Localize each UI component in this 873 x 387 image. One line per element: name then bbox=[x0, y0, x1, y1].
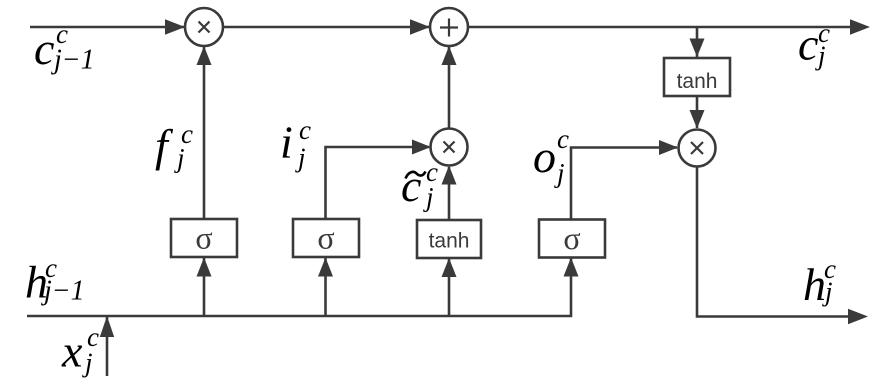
svg-text:c: c bbox=[299, 115, 311, 145]
arrowhead x-input up bbox=[100, 316, 114, 337]
label x_j^c input bbox=[61, 322, 99, 378]
svg-text:c: c bbox=[557, 124, 569, 154]
box sigma1 bbox=[171, 219, 237, 257]
wire from mid x-circle up to plus-circle bbox=[448, 47, 451, 128]
svg-text:j−1: j−1 bbox=[41, 276, 85, 307]
svg-text:c: c bbox=[34, 23, 54, 74]
svg-text:i: i bbox=[280, 117, 293, 168]
wire h-output from right x-circle down then right bbox=[697, 167, 851, 317]
arrowhead up into sigma1 bottom bbox=[197, 258, 212, 277]
svg-text:tanh: tanh bbox=[677, 70, 718, 93]
label c_j^c top right bbox=[798, 18, 830, 71]
svg-text:o: o bbox=[533, 131, 556, 182]
label h_j^c bottom right bbox=[803, 254, 836, 310]
symbol plus in circle bbox=[440, 19, 458, 37]
svg-text:c: c bbox=[401, 160, 421, 211]
label h_{j-1}^c bottom left bbox=[25, 253, 85, 308]
label i_j^c bbox=[280, 115, 311, 173]
wire from tanh-top box down to right x-circle bbox=[696, 96, 699, 128]
op x-circle 1 (forget multiply) bbox=[185, 8, 223, 46]
symbol x in circle 1 bbox=[199, 22, 210, 33]
arrowhead up into sigma3 bottom bbox=[564, 258, 579, 277]
wire i-path from sigma2 up and right to mid x-circle bbox=[326, 147, 430, 219]
wire from h-line up into sigma1 bbox=[203, 258, 206, 316]
op right x-circle (output multiply) bbox=[679, 130, 716, 167]
wire from h-line up into sigma2 bbox=[324, 258, 327, 316]
svg-text:σ: σ bbox=[563, 220, 580, 256]
box tanh-bottom bbox=[417, 220, 481, 258]
wire o-path from sigma3 up and right to right x-circle bbox=[571, 148, 677, 220]
arrowhead o-path into right x-circle left bbox=[659, 140, 678, 155]
arrowhead h-output right bbox=[848, 309, 868, 325]
op plus-circle (add) bbox=[430, 8, 468, 46]
arrowhead up into x-circle 1 bottom bbox=[197, 46, 212, 65]
symbol x in mid circle bbox=[444, 142, 455, 153]
svg-text:c: c bbox=[798, 18, 818, 69]
arrowhead c-line output right bbox=[850, 19, 870, 35]
wire h-line bottom horizontal then up into sigma3 bbox=[27, 258, 571, 316]
arrowhead into x-circle 1 bbox=[165, 19, 185, 35]
wire x-input vertical bbox=[106, 317, 109, 376]
svg-text:x: x bbox=[61, 326, 83, 377]
svg-text:σ: σ bbox=[195, 220, 212, 256]
wire c-line top horizontal bbox=[30, 26, 851, 29]
label o_j^c bbox=[533, 124, 569, 188]
arrowhead down into right x-circle top bbox=[690, 110, 705, 129]
symbol x in right circle bbox=[691, 142, 703, 154]
arrowhead up into tanh-bottom box bbox=[442, 258, 457, 277]
wire from h-line up into tanh-bottom box bbox=[448, 259, 451, 316]
svg-text:σ: σ bbox=[317, 220, 334, 256]
label c_{j-1}^c top left bbox=[34, 19, 95, 76]
label f_j^c bbox=[155, 119, 193, 173]
arrowhead down into tanh-top box bbox=[690, 39, 705, 58]
arrowhead into plus-circle bbox=[410, 19, 430, 35]
arrowhead i-path into mid x-circle left bbox=[412, 140, 431, 155]
svg-text:j−1: j−1 bbox=[51, 45, 95, 76]
arrowhead c-tilde into mid x-circle bottom bbox=[442, 166, 457, 185]
wire c-tilde from tanh-bottom box up to mid x-circle bbox=[448, 167, 451, 220]
box tanh-top bbox=[664, 58, 730, 96]
box sigma3 bbox=[539, 220, 605, 258]
wire f vertical from sigma1 to x-circle bbox=[203, 47, 206, 219]
arrowhead up into plus-circle bottom bbox=[442, 46, 457, 65]
label c-tilde_j^c bbox=[401, 157, 438, 212]
box sigma2 bbox=[293, 219, 359, 257]
wire branch down from c-line into tanh-top box bbox=[696, 27, 699, 57]
svg-text:h: h bbox=[803, 259, 826, 310]
svg-text:tanh: tanh bbox=[429, 230, 470, 253]
op mid x-circle (input multiply) bbox=[431, 129, 468, 166]
arrowhead up into sigma2 bottom bbox=[318, 258, 333, 277]
